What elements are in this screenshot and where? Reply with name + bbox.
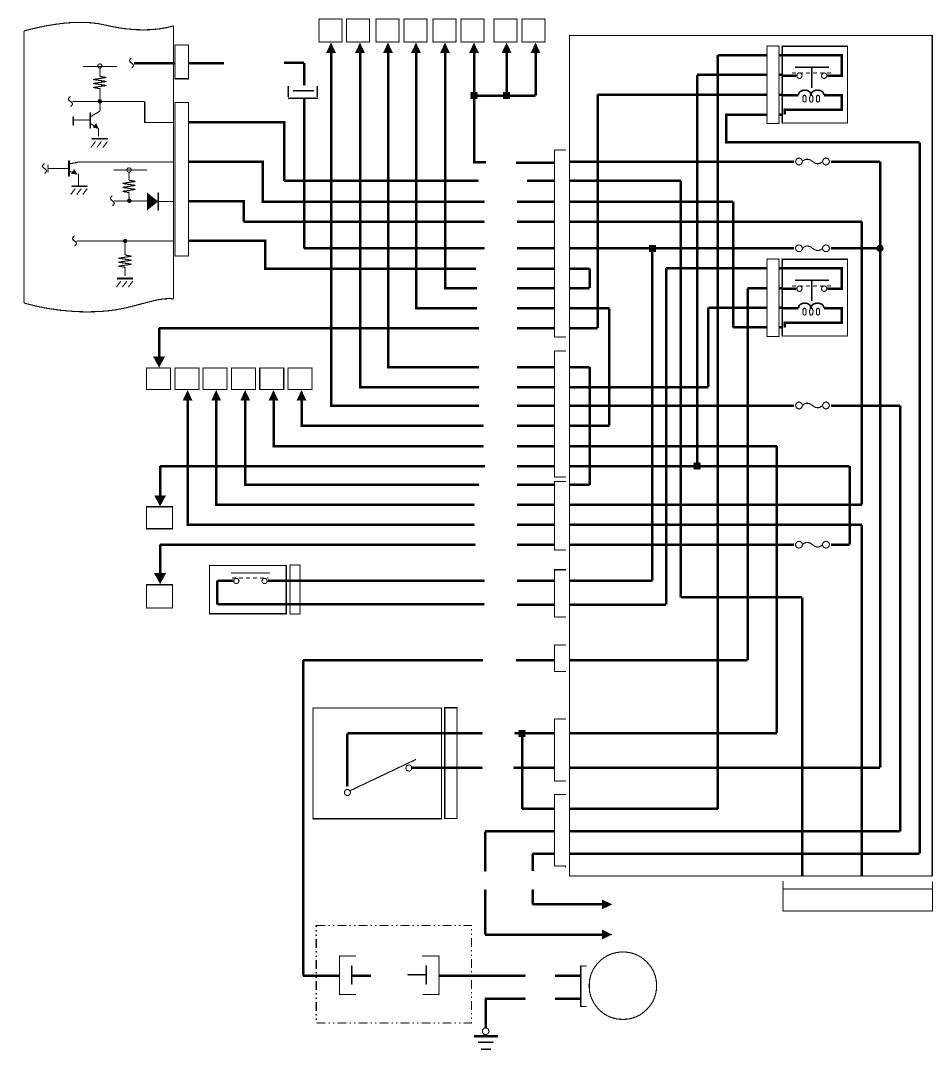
- wire: relay K1 pin4: [569, 115, 919, 854]
- motor M1: [589, 952, 656, 1019]
- arrow into lamp 8: [531, 43, 541, 53]
- telltale box 6: [288, 368, 312, 390]
- wire: pull-up supply line 1: [83, 64, 117, 77]
- connector for motor: [581, 966, 587, 1007]
- diode D1: [147, 193, 173, 211]
- wire: pin 580 drop to F2: [569, 248, 652, 580]
- wire: fused line F1: [569, 162, 880, 768]
- wire: pin 853 stub right: [569, 852, 919, 855]
- fuse F2: [794, 243, 831, 254]
- wire: pin 504 branch: [569, 503, 861, 506]
- resistor R3: [119, 241, 132, 276]
- wire: lamp7 drop: [505, 52, 508, 96]
- shielded cable box (dash-dot): [316, 925, 471, 1023]
- arrowhead output 2: [602, 930, 612, 940]
- wire: output arrow 2: [485, 831, 603, 934]
- wire: motor feed stub top: [555, 974, 581, 977]
- wire: relay K1 coil feed: [569, 95, 783, 328]
- indicator lamp box 2: [347, 19, 370, 42]
- resistor R1 (pull-up): [93, 76, 106, 88]
- fuse F3: [794, 400, 831, 411]
- wire: lamp6-7-8 common bus: [474, 94, 536, 97]
- fuse F4: [794, 539, 831, 550]
- arrow up into telltale 5: [269, 390, 279, 401]
- wire: pin 268 loop: [569, 269, 589, 289]
- wire: fused line F4: [569, 543, 849, 546]
- telltale box 1: [147, 368, 171, 390]
- wire: lamp4 feed: [416, 52, 477, 309]
- telltale box 2: [175, 368, 199, 390]
- junction dot instrument feed: [519, 730, 526, 737]
- wire: telltale4 feed: [245, 400, 479, 485]
- wire: pin 767 bus: [569, 766, 880, 769]
- arrow into lamp 4: [411, 43, 421, 53]
- arrow into lamp 1: [326, 43, 336, 53]
- ground strap tray: [783, 881, 933, 911]
- wire: sender line to lower units: [303, 660, 483, 976]
- harness connector strip (left brackets): [554, 150, 565, 868]
- indicator lamp box 3: [376, 19, 399, 42]
- ECU module torn-edge box: [24, 22, 174, 312]
- wire: lamp6 feed: [474, 52, 486, 163]
- arrow into lamp 2: [355, 43, 365, 53]
- ground (Q1 emitter): [91, 139, 108, 148]
- wire: telltale1 feed: [159, 328, 479, 358]
- wire: pin 466 to F4: [569, 466, 849, 545]
- single indicator box B: [147, 585, 173, 608]
- transistor Q2: [43, 160, 79, 185]
- switch S1 box: [210, 565, 485, 613]
- wire: ECU return output: [189, 241, 476, 269]
- wire: pin 831 stub left: [485, 830, 554, 833]
- connector for switch S1: [290, 565, 300, 614]
- battery B1: [284, 63, 318, 248]
- node A junction dot: [98, 99, 102, 103]
- ground (R3): [116, 279, 133, 288]
- wire: pin 221 loop: [569, 222, 861, 505]
- wire: pin 853 stub left: [533, 852, 555, 855]
- wire: connector stub row (left of harness): [513, 163, 554, 768]
- wire: ECU connector stub pin 1: [130, 58, 225, 68]
- wire: telltale5 feed: [274, 400, 484, 447]
- wire: lamp2 feed: [360, 52, 479, 388]
- main harness boundary box: [569, 35, 932, 876]
- indicator lamp box 5: [433, 19, 456, 42]
- wire: instrument feed drop: [522, 733, 554, 809]
- arrow up into telltale 3: [211, 390, 221, 401]
- node B junction dot: [127, 199, 131, 203]
- wire: pull-up supply line 2: [113, 168, 147, 180]
- wire: relay K1 pin2: [697, 75, 783, 466]
- arrow into lamp 3: [383, 43, 393, 53]
- arrow into lamp 5: [440, 43, 450, 53]
- wire: pin 524 drop: [569, 525, 861, 876]
- wire: into capacitor C1: [303, 974, 340, 977]
- wire: pin 660 to relay K2 pin2: [569, 659, 747, 662]
- relay K1: [767, 46, 848, 124]
- relay K2: [767, 259, 848, 337]
- wire: sensor return line: [73, 236, 174, 246]
- wire: fuse feed from battery: [304, 247, 484, 250]
- arrow down into telltale 1: [153, 357, 165, 368]
- telltale box 3: [203, 368, 227, 390]
- arrowhead output 1: [602, 900, 612, 910]
- wire: pin 831 stub right: [569, 830, 900, 833]
- indicator lamp box 1: [319, 19, 342, 42]
- wire: pin 201 to relay K2 pin4: [569, 202, 782, 328]
- wire: relay K2 pin2: [569, 288, 782, 660]
- wire: lamp8 drop: [534, 52, 537, 96]
- wire: base node of Q1: [69, 88, 145, 111]
- fuse F1: [794, 156, 831, 167]
- wire: lamp3 feed: [388, 52, 479, 368]
- connector J1 (ECU): [175, 45, 188, 256]
- indicator lamp box 4: [404, 19, 427, 42]
- wire: relay K2 coil feed: [569, 308, 782, 387]
- arrow into lamp 6: [469, 43, 479, 53]
- indicator lamp box 7: [494, 19, 517, 42]
- wire: pin 180 branch: [569, 181, 802, 876]
- wire: pin 446 branch: [569, 446, 777, 733]
- single indicator box A: [147, 507, 173, 529]
- wire: motor feed stub bottom: [555, 997, 581, 1000]
- wire: telltale3 feed: [216, 400, 474, 505]
- wire: lamp5 feed: [445, 52, 477, 289]
- connector for instrument unit: [445, 708, 457, 819]
- node C junction dot: [123, 239, 127, 243]
- wire: ECU diode output: [189, 201, 485, 221]
- wire: fused line F2: [569, 247, 880, 250]
- wire: box A feed: [160, 466, 485, 497]
- junction dot pin466: [694, 463, 701, 470]
- wire: fused line F3: [569, 406, 900, 832]
- junction dot lamp7 bus: [503, 92, 510, 99]
- transistor Q1: [73, 111, 100, 136]
- wire: pin 733 branch: [569, 732, 777, 735]
- wire: lamp1 feed: [331, 52, 479, 406]
- chassis ground (bolt): [474, 1028, 498, 1049]
- telltale box 4: [231, 368, 255, 390]
- indicator lamp box 8: [522, 19, 545, 42]
- arrow up into telltale 2: [183, 390, 193, 401]
- wire: Q2 collector output: [79, 161, 174, 163]
- capacitor C1 (feed-through): [340, 956, 371, 995]
- instrument unit box: [313, 708, 482, 819]
- wire: relay K1 pin1: [569, 55, 783, 809]
- wire: relay K2 pin1: [569, 268, 782, 605]
- ground (Q2 emitter): [71, 186, 88, 195]
- wire: output arrow 1: [533, 854, 604, 905]
- wire: pin 604 to relay K2 pin1: [569, 603, 666, 606]
- wire: pin 808 stub right: [569, 808, 717, 811]
- wire: pin 367 loop: [569, 367, 589, 485]
- wire: diode anode node: [110, 191, 147, 206]
- arrow down into box B: [154, 573, 166, 584]
- wire: pin 308 loop: [569, 308, 609, 425]
- junction dot F2 to F1 drop: [876, 245, 883, 252]
- wire: node A to connector: [145, 101, 174, 122]
- wire: ECU Q2 output: [189, 162, 485, 202]
- arrow down into box A: [154, 495, 166, 506]
- resistor R2 (pull-up): [123, 180, 136, 192]
- junction dot F2 branch: [649, 245, 656, 252]
- arrow up into telltale 6: [297, 390, 307, 401]
- wire: ECU node A output: [189, 122, 479, 181]
- arrow into lamp 7: [502, 43, 512, 53]
- indicator lamp box 6: [461, 19, 484, 42]
- junction dot lamp6 bus: [471, 92, 478, 99]
- wire: ground branch: [485, 999, 526, 1029]
- wire: telltale2 feed: [188, 400, 475, 525]
- wire: telltale6 feed: [302, 400, 484, 426]
- arrow up into telltale 4: [240, 390, 250, 401]
- telltale box 5: [260, 368, 284, 390]
- capacitor C2 (feed-through): [408, 956, 526, 995]
- wire: box B feed: [160, 545, 475, 575]
